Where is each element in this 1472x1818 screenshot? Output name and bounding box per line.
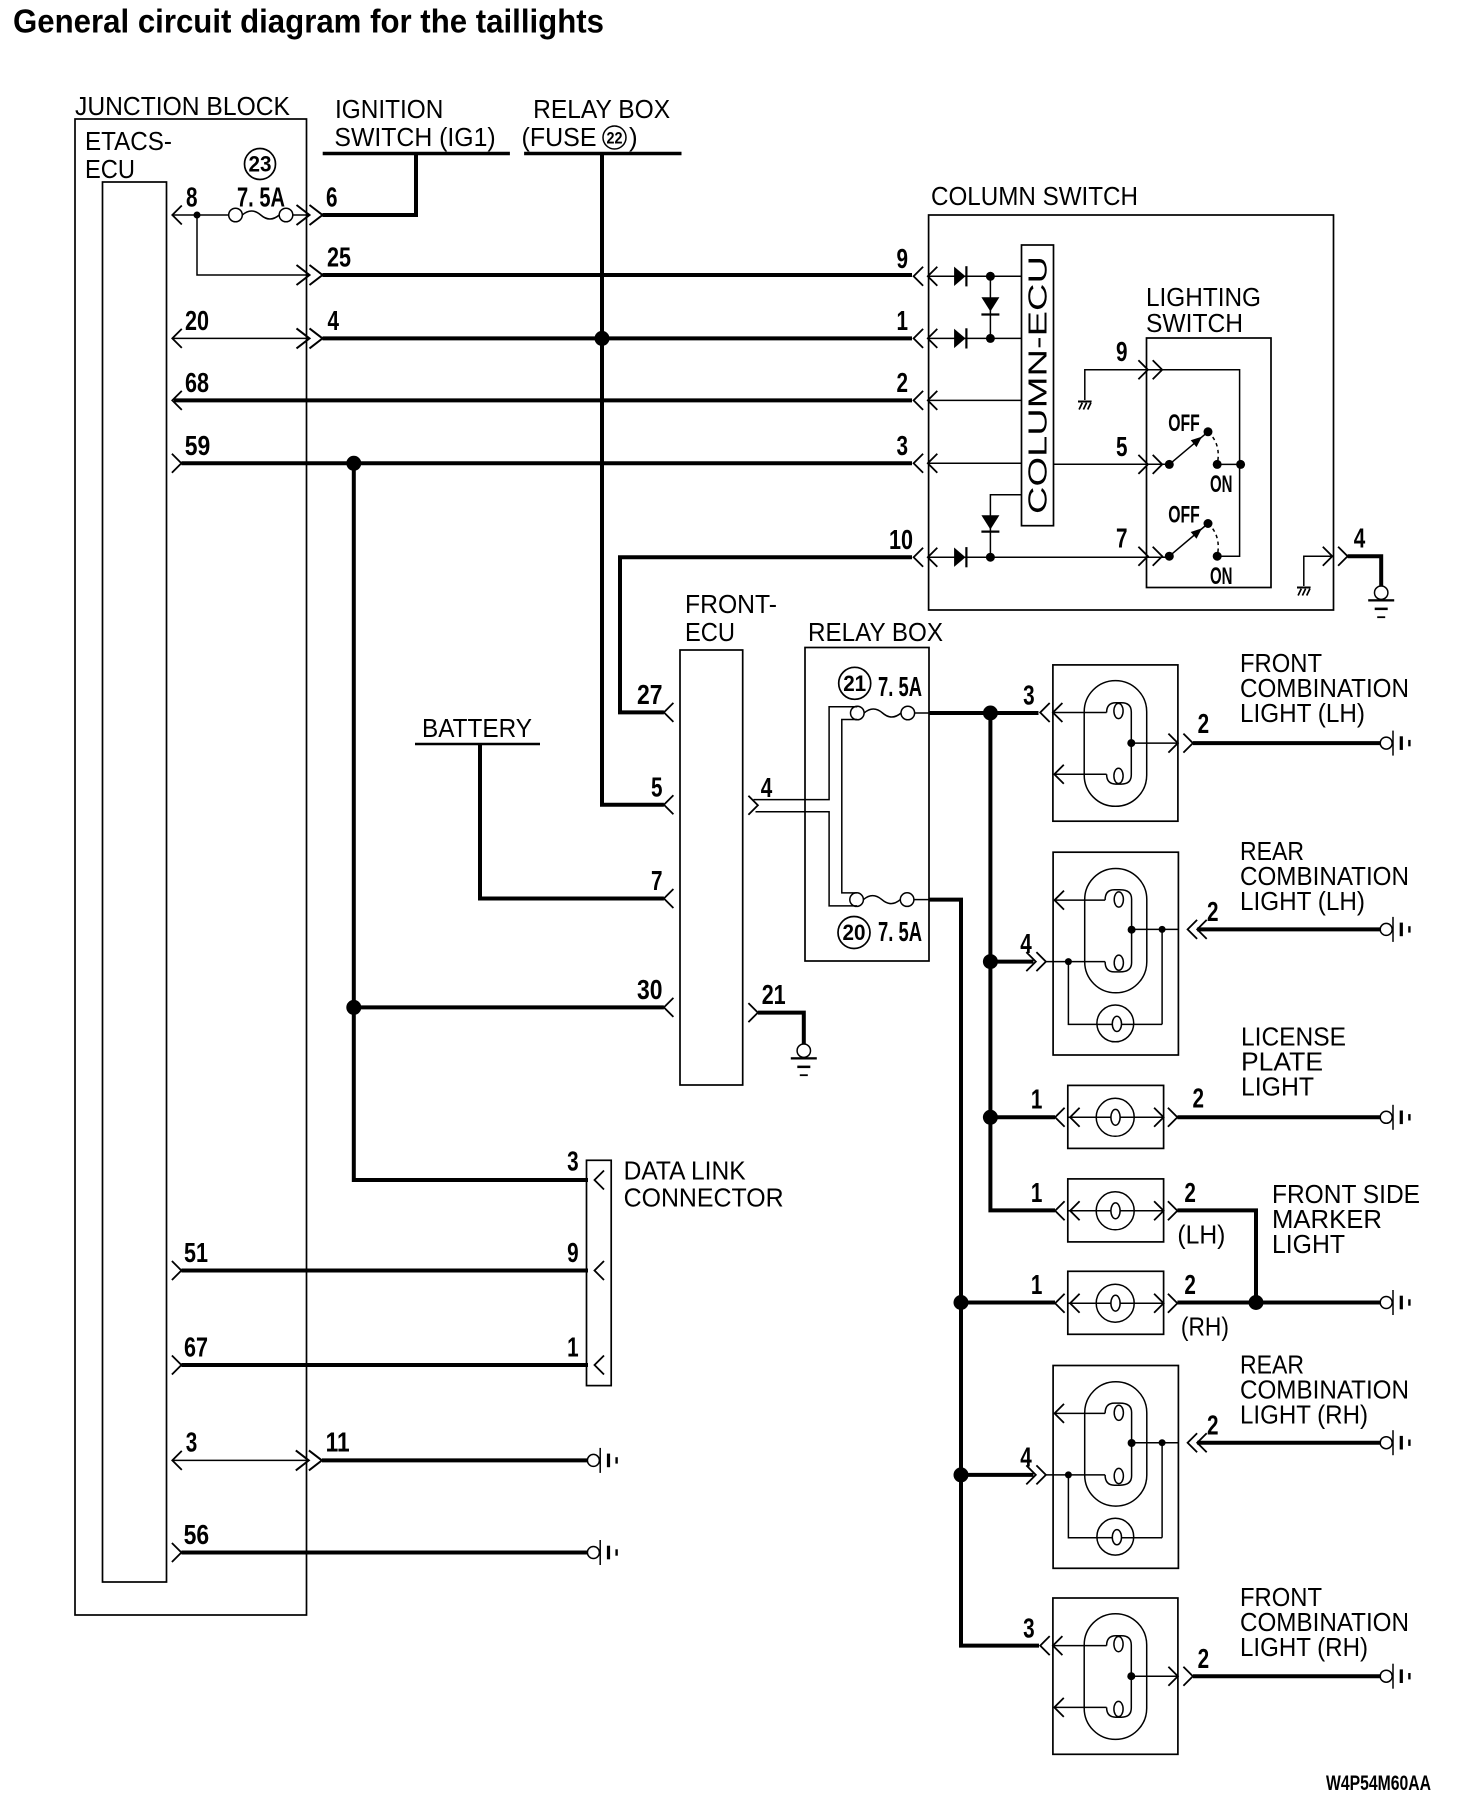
svg-text:1: 1 xyxy=(567,1332,579,1363)
pin 25 connector arrows xyxy=(297,265,323,285)
column pin 10 xyxy=(889,524,1169,567)
svg-text:LIGHT (LH): LIGHT (LH) xyxy=(1240,886,1365,916)
front combination light RH box xyxy=(1053,1598,1178,1754)
svg-text:23: 23 xyxy=(249,152,272,177)
svg-text:): ) xyxy=(629,122,638,152)
wire fuse20 thick trunk2 xyxy=(929,900,1039,1646)
ignition switch label xyxy=(323,94,510,154)
svg-text:2: 2 xyxy=(1184,1177,1196,1208)
rear combination light RH box xyxy=(1053,1366,1178,1569)
front combination light LH label xyxy=(1240,648,1409,728)
chassis ground pin 9 xyxy=(1078,401,1092,410)
front combination light RH label xyxy=(1240,1582,1409,1662)
front-ecu pin 5 xyxy=(651,771,673,814)
wire pin 21 to ground xyxy=(758,1013,804,1044)
wire 10 to front-ecu pin 27 xyxy=(620,557,912,712)
pin 68 xyxy=(172,367,209,410)
ground markers xyxy=(1380,1290,1410,1315)
front-ecu pin 7 xyxy=(651,865,673,908)
rear comb LH pin 2 arrows xyxy=(1188,920,1207,939)
junction block box xyxy=(75,119,307,1615)
svg-text:3: 3 xyxy=(567,1146,579,1177)
node pin 9 diode xyxy=(986,272,995,281)
license plate light label xyxy=(1241,1022,1346,1102)
wire marker RH pin 2 to ground xyxy=(1177,1301,1380,1305)
license plate light xyxy=(1055,1085,1177,1148)
svg-text:9: 9 xyxy=(567,1237,579,1268)
fuse 23 xyxy=(229,208,293,222)
svg-text:2: 2 xyxy=(1198,708,1210,739)
rear comb RH bottom filament xyxy=(1105,1443,1132,1485)
node front comb LH xyxy=(1127,739,1135,747)
wire fuse20 out xyxy=(914,899,929,901)
lighting switch label xyxy=(1146,282,1261,338)
column switch box xyxy=(929,215,1334,610)
wire 51 to DLC pin 9 xyxy=(181,1269,588,1273)
svg-text:4: 4 xyxy=(1354,523,1366,554)
svg-text:2: 2 xyxy=(1193,1082,1205,1113)
node pin 1 diode xyxy=(986,334,995,343)
svg-text:SWITCH: SWITCH xyxy=(1146,308,1243,338)
pin 11 connector arrows xyxy=(296,1450,322,1470)
column-ecu box xyxy=(1022,245,1054,526)
wire 4 to column switch pin 1 xyxy=(323,336,913,340)
fuse 20 circled label xyxy=(838,917,870,949)
node rear comb RH center xyxy=(1128,1439,1136,1447)
front-ecu pin 27 xyxy=(637,679,673,722)
svg-text:4: 4 xyxy=(1020,928,1032,959)
DLC pin 3 xyxy=(567,1146,604,1190)
wire pin8 node to pin 25 xyxy=(197,215,308,275)
rear comb LH top stub pin xyxy=(1055,891,1106,910)
svg-text:RELAY BOX: RELAY BOX xyxy=(533,94,670,124)
pin 4 connector arrows xyxy=(297,328,323,348)
wire marker LH pin2 down to RH wire xyxy=(1177,1210,1256,1302)
lighting switch pin 7 xyxy=(1116,523,1162,566)
data link connector label xyxy=(624,1156,784,1213)
svg-text:SWITCH (IG1): SWITCH (IG1) xyxy=(334,122,495,152)
svg-text:(LH): (LH) xyxy=(1177,1219,1225,1249)
rear combination light LH box xyxy=(1053,852,1178,1055)
front comb LH bottom filament xyxy=(1107,743,1132,784)
ground wire 56 xyxy=(587,1540,617,1565)
svg-text:1: 1 xyxy=(1031,1269,1043,1300)
rear comb RH top filament xyxy=(1105,1403,1132,1443)
rear comb LH tail bulb xyxy=(1068,929,1162,1041)
svg-text:2: 2 xyxy=(1184,1269,1196,1300)
svg-text:7. 5A: 7. 5A xyxy=(237,182,285,213)
svg-text:CONNECTOR: CONNECTOR xyxy=(624,1183,784,1213)
wire 25 to column switch pin 9 xyxy=(323,273,913,277)
svg-text:LIGHT (RH): LIGHT (RH) xyxy=(1240,1400,1368,1430)
front comb LH top filament xyxy=(1107,703,1132,743)
wire pin 4 fork bottom to fuse 20 xyxy=(756,812,858,906)
rear comb RH pin 2 arrows xyxy=(1188,1433,1207,1452)
svg-text:ON: ON xyxy=(1210,471,1233,498)
front side marker light LH xyxy=(1055,1179,1177,1242)
node marker join xyxy=(1249,1295,1264,1310)
relay box (fuse 22) label xyxy=(522,94,682,154)
rear comb RH tail bulb xyxy=(1068,1443,1162,1555)
svg-text:56: 56 xyxy=(184,1519,210,1550)
node rear comb LH center xyxy=(1128,926,1136,934)
node trunk2 rear RH xyxy=(954,1467,969,1482)
svg-text:4: 4 xyxy=(1020,1441,1032,1472)
svg-text:BATTERY: BATTERY xyxy=(422,713,532,743)
wire fuse21 thick feed xyxy=(929,711,1039,715)
lighting switch pin 9 xyxy=(1116,336,1162,379)
svg-text:10: 10 xyxy=(889,524,913,555)
node fuse21 trunk xyxy=(983,706,998,721)
svg-text:LIGHT: LIGHT xyxy=(1272,1229,1345,1259)
svg-text:ECU: ECU xyxy=(685,617,735,647)
svg-text:1: 1 xyxy=(1031,1084,1043,1115)
relay box xyxy=(805,648,929,962)
pin 20 xyxy=(172,305,308,348)
column pin 2 xyxy=(897,367,1022,410)
wire trunk1 down to marker LH xyxy=(990,713,1055,1210)
switch 2 lever xyxy=(1165,519,1213,561)
svg-text:COLUMN-ECU: COLUMN-ECU xyxy=(1023,256,1053,514)
front side marker light RH xyxy=(1055,1271,1177,1334)
node wire4 fuse22 drop xyxy=(595,331,610,346)
svg-text:(RH): (RH) xyxy=(1181,1312,1229,1342)
ground wire 11 xyxy=(587,1448,617,1473)
data link connector box xyxy=(587,1160,612,1385)
node pin8 junction xyxy=(194,212,201,219)
svg-text:OFF: OFF xyxy=(1168,501,1200,528)
svg-text:W4P54M60AA: W4P54M60AA xyxy=(1326,1772,1431,1795)
rear comb RH pin 4 arrows xyxy=(1026,1465,1046,1484)
switch 2 dashed arc xyxy=(1208,524,1218,557)
pin 67 xyxy=(172,1332,208,1375)
svg-text:8: 8 xyxy=(186,182,198,213)
front comb LH pin 2 arrows xyxy=(1168,734,1193,753)
svg-text:IGNITION: IGNITION xyxy=(335,94,443,124)
rear comb RH pin 2 wire xyxy=(1132,1442,1179,1444)
wire pin 4 fork top to fuse 21 xyxy=(754,707,858,800)
wire 11 to ground xyxy=(322,1458,588,1462)
svg-text:20: 20 xyxy=(185,305,209,336)
svg-text:27: 27 xyxy=(637,679,663,710)
svg-text:5: 5 xyxy=(1116,431,1128,462)
wire fuse23 to pin 6 xyxy=(292,214,308,216)
wire 68 to column switch pin 2 xyxy=(174,398,912,402)
svg-text:25: 25 xyxy=(327,242,351,273)
svg-text:3: 3 xyxy=(897,430,909,461)
svg-text:1: 1 xyxy=(1031,1177,1043,1208)
wire trunk1 to license pin 1 xyxy=(990,1115,1055,1119)
svg-text:22: 22 xyxy=(607,129,623,148)
fuse 21 circled label xyxy=(839,667,871,699)
rear comb RH top stub pin xyxy=(1055,1404,1106,1423)
front comb RH pin 3 arrows xyxy=(1040,1636,1062,1655)
svg-text:5: 5 xyxy=(651,771,663,802)
wire trunk1 to rear LH pin 4 xyxy=(990,960,1033,964)
rear comb RH pin 4 wire xyxy=(1046,1474,1105,1476)
node trunk1 license xyxy=(983,1110,998,1125)
svg-text:FRONT-: FRONT- xyxy=(685,589,777,619)
svg-text:7. 5A: 7. 5A xyxy=(878,916,922,947)
ground rear comb RH xyxy=(1380,1430,1410,1455)
rear comb LH pin 4 arrows xyxy=(1026,952,1046,971)
front comb RH stub pin xyxy=(1054,1698,1106,1717)
wire rear comb LH to ground xyxy=(1197,927,1380,931)
node pin 10 diode xyxy=(986,553,995,562)
svg-text:RELAY BOX: RELAY BOX xyxy=(808,617,943,647)
diode pin 1 xyxy=(954,328,966,348)
svg-text:11: 11 xyxy=(326,1427,350,1458)
diode pin 10 xyxy=(954,547,966,567)
rear combination light LH label xyxy=(1240,836,1409,916)
node trunk wire30 xyxy=(346,1000,361,1015)
node trunk2 marker RH xyxy=(954,1295,969,1310)
switch 1 lever xyxy=(1165,427,1213,469)
rear comb LH pin 4 wire xyxy=(1046,961,1105,963)
front comb RH bottom filament xyxy=(1107,1676,1132,1717)
svg-text:7. 5A: 7. 5A xyxy=(878,671,922,702)
svg-text:JUNCTION BLOCK: JUNCTION BLOCK xyxy=(75,91,291,121)
switch 1 dashed arc xyxy=(1208,432,1218,465)
wire ground stub to pin 9 xyxy=(1085,370,1240,400)
pin 6 connector arrows xyxy=(297,205,323,225)
wire pin9 inside switch xyxy=(1162,370,1239,557)
svg-text:LIGHT (RH): LIGHT (RH) xyxy=(1240,1632,1368,1662)
front comb LH pin 2 wire xyxy=(1131,742,1178,744)
front comb RH pin 3 wire xyxy=(1053,1645,1107,1647)
svg-text:30: 30 xyxy=(637,974,663,1005)
front-ecu pin 21 xyxy=(748,979,785,1022)
column pin 1 xyxy=(897,305,1022,348)
svg-text:OFF: OFF xyxy=(1168,410,1200,437)
fuse 20 xyxy=(850,893,914,907)
node trunk1 rear LH xyxy=(983,954,998,969)
wire 59 to column switch pin 3 xyxy=(181,461,912,465)
front comb LH stub pin xyxy=(1054,765,1106,784)
node rear LH tail branch xyxy=(1065,958,1072,965)
pin 59 xyxy=(172,430,210,473)
pin 8 xyxy=(172,182,229,225)
rear comb LH pin 2 wire xyxy=(1132,928,1179,930)
ground license xyxy=(1380,1105,1410,1130)
ground rear comb LH xyxy=(1380,917,1410,942)
fuse 23 circled label xyxy=(245,149,276,180)
front-ecu pin 30 xyxy=(637,974,673,1017)
node front comb RH xyxy=(1127,1672,1135,1680)
wire battery to front-ecu pin 7 xyxy=(480,745,664,899)
svg-text:20: 20 xyxy=(843,920,866,945)
svg-text:2: 2 xyxy=(897,367,909,398)
wire rear comb RH to ground xyxy=(1197,1441,1380,1445)
column switch pin 4 xyxy=(1323,523,1366,566)
svg-text:4: 4 xyxy=(761,772,773,803)
svg-text:51: 51 xyxy=(184,1237,208,1268)
front comb RH pin 2 wire xyxy=(1131,1675,1178,1677)
front-ecu label xyxy=(685,589,777,647)
front-ecu pin 4 xyxy=(748,772,772,815)
fuse 21 xyxy=(851,706,915,720)
rear combination light RH label xyxy=(1240,1350,1409,1430)
svg-text:4: 4 xyxy=(328,305,340,336)
svg-text:General circuit diagram for th: General circuit diagram for the tailligh… xyxy=(13,4,604,41)
svg-text:ON: ON xyxy=(1210,563,1233,590)
wire trunk2 to marker RH pin 1 xyxy=(961,1301,1055,1305)
svg-text:7: 7 xyxy=(651,865,663,896)
diode vertical pin10 to column-ecu xyxy=(981,495,1021,558)
ETACS-ECU box xyxy=(103,182,167,1582)
ground front comb RH xyxy=(1380,1664,1410,1689)
lighting switch box xyxy=(1147,338,1272,588)
wire pin6 to ignition switch xyxy=(323,155,417,215)
front comb LH pin 3 arrows xyxy=(1040,703,1062,722)
svg-text:DATA LINK: DATA LINK xyxy=(624,1156,747,1186)
svg-text:9: 9 xyxy=(897,243,909,274)
svg-text:3: 3 xyxy=(1023,1613,1035,1644)
front comb RH pin 2 arrows xyxy=(1168,1667,1193,1686)
column pin 3 xyxy=(897,430,1022,473)
svg-text:1: 1 xyxy=(897,305,909,336)
svg-text:(FUSE: (FUSE xyxy=(522,122,597,152)
svg-text:ECU: ECU xyxy=(85,154,135,184)
svg-text:59: 59 xyxy=(185,430,211,461)
svg-text:6: 6 xyxy=(326,182,338,213)
svg-text:LIGHT: LIGHT xyxy=(1241,1072,1314,1102)
front side marker light label xyxy=(1272,1179,1420,1259)
svg-text:ETACS-: ETACS- xyxy=(85,126,172,156)
wire 30 to front-ecu xyxy=(354,1005,664,1009)
pin 51 xyxy=(172,1237,208,1280)
wire trunk2 to rear RH pin 4 xyxy=(961,1473,1034,1477)
front combination light LH box xyxy=(1053,665,1178,821)
node rear RH tail bulb return xyxy=(1159,1439,1166,1446)
svg-text:2: 2 xyxy=(1207,1409,1219,1440)
wire 67 to DLC pin 1 xyxy=(181,1363,588,1367)
node rear RH tail branch xyxy=(1065,1471,1072,1478)
svg-text:68: 68 xyxy=(185,367,209,398)
switch 2 ON contact xyxy=(1213,552,1222,561)
pin 3 xyxy=(172,1427,307,1470)
chassis ground pin 4 stub xyxy=(1297,587,1311,596)
wire fuse21 bottom to fuse20 top xyxy=(842,720,858,893)
rear comb LH top filament xyxy=(1105,890,1132,930)
svg-text:LIGHT (LH): LIGHT (LH) xyxy=(1240,698,1365,728)
front-ecu box xyxy=(680,650,743,1085)
earth ground column pin 4 xyxy=(1368,586,1394,618)
wire fuse21 out to junction xyxy=(914,712,929,714)
svg-text:3: 3 xyxy=(1023,680,1035,711)
column pin 9 xyxy=(897,243,1022,286)
lighting switch pin 5 xyxy=(1054,431,1170,474)
svg-text:3: 3 xyxy=(186,1427,198,1458)
battery label xyxy=(415,713,540,744)
svg-text:9: 9 xyxy=(1116,336,1128,367)
earth ground pin 21 xyxy=(791,1044,817,1076)
svg-text:2: 2 xyxy=(1207,896,1219,927)
svg-text:67: 67 xyxy=(184,1332,208,1363)
wire pin 4 to earth ground xyxy=(1348,556,1382,586)
switch 1 ON contact xyxy=(1213,460,1245,469)
wire fuse22 drop to front-ecu pin 5 xyxy=(602,155,664,805)
wire trunk down to DLC pin 3 xyxy=(354,463,588,1180)
DLC pin 1 xyxy=(567,1332,604,1375)
rear comb LH bottom filament xyxy=(1105,930,1132,972)
wire license pin 2 to ground xyxy=(1177,1115,1380,1119)
wire front comb LH to ground xyxy=(1193,741,1380,745)
pin 56 xyxy=(172,1519,209,1562)
node 59 trunk xyxy=(346,456,361,471)
svg-text:21: 21 xyxy=(762,979,786,1010)
wire front comb RH to ground xyxy=(1193,1674,1380,1678)
diode vertical between pin9 and pin1 xyxy=(981,276,999,338)
svg-text:7: 7 xyxy=(1116,523,1128,554)
node rear LH tail bulb return xyxy=(1159,926,1166,933)
diode pin 9 xyxy=(954,266,966,286)
wire 56 to ground xyxy=(181,1551,587,1555)
DLC pin 9 xyxy=(567,1237,604,1280)
front comb RH top filament xyxy=(1107,1636,1132,1676)
wire chassis stub to pin 4 xyxy=(1304,556,1331,586)
svg-text:COLUMN SWITCH: COLUMN SWITCH xyxy=(931,181,1138,211)
svg-text:21: 21 xyxy=(843,671,866,696)
ETACS-ECU label xyxy=(85,126,172,184)
ground front comb LH xyxy=(1380,731,1410,756)
svg-text:2: 2 xyxy=(1198,1643,1210,1674)
front comb LH pin 3 wire xyxy=(1053,712,1107,714)
